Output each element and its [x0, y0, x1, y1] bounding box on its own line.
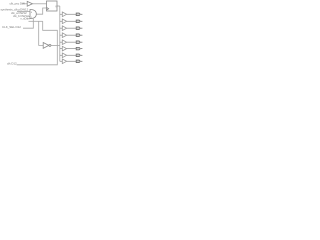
svg-text:CLK_SEL D12: CLK_SEL D12: [2, 25, 21, 29]
svg-text:n_sD1: n_sD1: [21, 16, 29, 20]
svg-text:clk D12: clk D12: [7, 62, 17, 66]
svg-text:clk_psc DW: clk_psc DW: [10, 2, 26, 6]
svg-text:Q: Q: [55, 6, 57, 8]
